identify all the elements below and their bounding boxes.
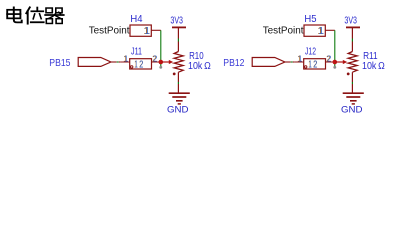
svg-text:GND: GND <box>341 104 363 115</box>
svg-text:3V3: 3V3 <box>344 16 357 27</box>
svg-text:TestPoint: TestPoint <box>263 26 304 37</box>
svg-text:10k Ω: 10k Ω <box>188 61 211 72</box>
svg-text:H5: H5 <box>304 13 316 25</box>
svg-text:1: 1 <box>298 54 302 63</box>
svg-text:H4: H4 <box>130 13 142 25</box>
svg-text:2: 2 <box>153 54 157 63</box>
svg-text:J11: J11 <box>131 45 142 57</box>
svg-text:10k Ω: 10k Ω <box>362 61 385 72</box>
svg-text:2: 2 <box>313 59 317 70</box>
svg-text:1: 1 <box>318 25 324 37</box>
svg-text:3V3: 3V3 <box>170 16 183 27</box>
svg-text:1: 1 <box>309 59 312 70</box>
svg-text:1: 1 <box>124 54 128 63</box>
svg-text:TestPoint: TestPoint <box>89 26 130 37</box>
svg-text:2: 2 <box>139 59 143 70</box>
svg-text:PB12: PB12 <box>223 58 245 69</box>
svg-text:2: 2 <box>327 54 331 63</box>
svg-text:1: 1 <box>144 25 150 37</box>
svg-text:J12: J12 <box>305 45 316 57</box>
svg-text:1: 1 <box>135 59 138 70</box>
svg-text:PB15: PB15 <box>49 58 71 69</box>
svg-text:GND: GND <box>167 104 189 115</box>
